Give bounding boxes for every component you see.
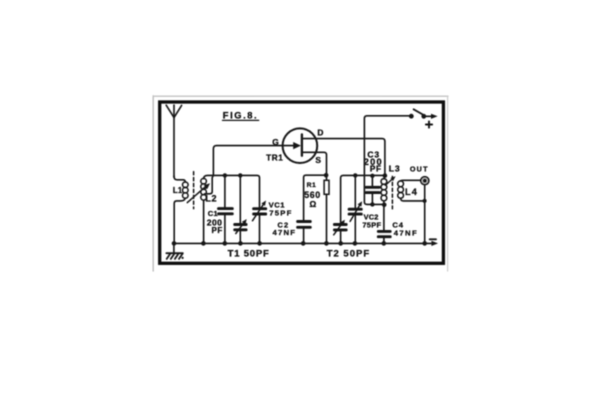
connector OUT jack	[421, 177, 429, 185]
switch S1 lever	[414, 109, 424, 115]
wire ground bus	[174, 242, 431, 244]
wire tank1 top bus (L2 top to VC1)	[204, 175, 260, 207]
label FIG.8.	[223, 110, 258, 120]
wire gate tap on L2	[205, 175, 214, 193]
resistor R1	[324, 175, 329, 243]
wire antenna to L1 top	[174, 176, 185, 182]
wire tank2 top bus (T2 to L3 top)	[341, 175, 385, 223]
node L3 top	[383, 173, 388, 178]
node L3 bottom	[382, 203, 387, 208]
trimmer capacitor T2	[334, 220, 347, 244]
scan edge artifact right	[447, 96, 449, 271]
wire L4 bottom to OUT return	[401, 198, 425, 201]
wire source node to C2	[304, 175, 327, 220]
svg-text:PF: PF	[370, 164, 382, 173]
ground symbol	[166, 243, 183, 259]
border frame	[160, 102, 444, 263]
svg-text:R1: R1	[307, 182, 317, 189]
tuning arrow L3	[385, 176, 395, 185]
inductor L4	[398, 181, 404, 198]
tuning arrow through L2	[187, 183, 210, 202]
node bus antenna	[172, 241, 177, 246]
svg-text:T1 50PF: T1 50PF	[228, 248, 270, 259]
capacitor C4	[378, 201, 390, 244]
node C3 top	[370, 174, 374, 178]
node T1 top	[238, 173, 242, 177]
transformer core T2 (dashed)	[391, 176, 393, 208]
label TR1	[266, 154, 283, 163]
wire L4 top to OUT jack	[401, 179, 421, 182]
svg-text:75PF: 75PF	[269, 209, 292, 218]
svg-text:L3: L3	[389, 163, 401, 173]
battery + lead arrow	[426, 114, 438, 119]
svg-text:L4: L4	[405, 187, 418, 197]
transistor TR1 gate arrowhead	[293, 142, 301, 149]
wire OUT jack down to ground bus	[424, 185, 426, 244]
pin label D	[317, 127, 323, 137]
label C1 value	[207, 209, 223, 235]
svg-text:PF: PF	[212, 226, 223, 235]
pin label S	[315, 155, 321, 165]
antenna	[166, 105, 181, 177]
wire L2 bottom to ground bus	[203, 200, 205, 243]
label T1 50PF	[228, 248, 270, 259]
node bus VC2	[353, 241, 358, 246]
svg-text:Ω: Ω	[310, 199, 317, 209]
node bus L2	[201, 241, 206, 246]
node bus R1	[324, 241, 329, 246]
inductor L2	[201, 178, 207, 200]
variable capacitor VC1	[253, 201, 267, 244]
node bus C1	[223, 241, 228, 246]
battery plus sign	[426, 121, 432, 127]
svg-text:47NF: 47NF	[273, 228, 297, 237]
label VC2 value	[362, 213, 381, 230]
label L1	[173, 186, 183, 195]
label L4	[405, 187, 418, 197]
node bus VC1	[257, 241, 262, 246]
node bus C2	[301, 241, 306, 246]
scan edge artifact top	[153, 95, 448, 97]
node bus C4	[382, 241, 387, 246]
label R1 value	[304, 182, 320, 209]
svg-text:47NF: 47NF	[394, 228, 418, 237]
label VC1 value	[269, 201, 293, 218]
node bus T2	[338, 241, 343, 246]
capacitor C1	[219, 175, 233, 243]
svg-text:75PF: 75PF	[362, 221, 381, 230]
inductor L3	[381, 179, 387, 201]
capacitor C3	[366, 175, 379, 204]
node bus T1	[238, 241, 243, 246]
node C3 bottom	[370, 202, 374, 206]
wire supply rail (+V down to node B)	[364, 116, 411, 205]
variable capacitor VC2	[349, 175, 362, 243]
wire drain line (D to L3 top)	[302, 139, 385, 176]
svg-text:D: D	[317, 127, 323, 137]
wire L3 top stub	[383, 176, 385, 179]
switch S1 contact 2	[421, 114, 426, 119]
trimmer capacitor T1	[235, 175, 247, 243]
wire L1 bottom to ground bus	[174, 198, 185, 243]
svg-text:L2: L2	[205, 194, 217, 204]
inductor L1	[183, 182, 189, 198]
scan edge artifact left	[152, 96, 154, 271]
switch S1 contact 1	[409, 114, 414, 119]
battery minus lead arrow	[431, 241, 438, 246]
transformer core T1 (dashed)	[193, 172, 195, 209]
node L4 bottom corner	[423, 199, 427, 203]
svg-text:FIG.8.: FIG.8.	[223, 110, 258, 120]
svg-text:G: G	[272, 137, 279, 147]
label T2 50PF	[327, 248, 370, 259]
label L2	[205, 194, 217, 204]
battery minus sign	[430, 238, 436, 240]
svg-text:S: S	[315, 155, 321, 165]
node C1 top	[223, 173, 227, 177]
svg-text:OUT: OUT	[410, 165, 429, 174]
svg-text:L1: L1	[173, 186, 183, 195]
node S junction	[324, 173, 329, 178]
wire gate riser	[213, 146, 293, 176]
node bus OUT	[422, 241, 427, 246]
transistor TR1 (FET) body	[283, 128, 318, 163]
wire source line (S down to node)	[302, 152, 327, 175]
svg-text:TR1: TR1	[266, 154, 283, 163]
label L3	[389, 163, 401, 173]
transistor TR1 channel bar	[301, 134, 303, 155]
pin label G	[272, 137, 279, 147]
label C2 value	[273, 221, 297, 238]
node VC2 top	[353, 173, 357, 177]
label C4 value	[392, 220, 418, 237]
svg-text:T2 50PF: T2 50PF	[327, 248, 370, 259]
label OUT	[410, 165, 429, 174]
label C3 value	[364, 150, 383, 174]
capacitor C2	[298, 222, 311, 244]
